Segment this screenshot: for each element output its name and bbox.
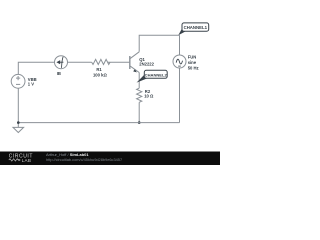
junction at R2/bottom rail	[138, 121, 141, 124]
flag CHANNEL2	[137, 70, 168, 82]
footer credit text	[46, 152, 122, 162]
wire R1 to Q1 base	[107, 61, 129, 63]
svg-text:10 Ω: 10 Ω	[144, 93, 154, 98]
wire top rail to FUN	[179, 35, 181, 55]
junction at VBB/bottom rail	[17, 121, 20, 124]
svg-text:IB: IB	[57, 71, 61, 76]
transistor Q1	[130, 52, 139, 73]
footer logo CIRCUIT LAB	[9, 154, 33, 163]
resistor R1	[92, 59, 110, 64]
svg-text:http://circuitlab.com/c/45khu9: http://circuitlab.com/c/45khu9d28b9e6c34…	[46, 157, 122, 162]
svg-text:2N2222: 2N2222	[139, 61, 154, 66]
wire FUN to bottom rail	[179, 68, 181, 123]
svg-text:FUN: FUN	[188, 55, 197, 60]
svg-text:sine: sine	[188, 60, 197, 65]
ammeter label IB	[57, 71, 61, 76]
wire bottom rail	[18, 122, 179, 124]
source FUN	[173, 55, 186, 68]
R2 value labels	[144, 89, 154, 99]
svg-text:100 kΩ: 100 kΩ	[93, 73, 107, 78]
voltage source VBB	[11, 74, 25, 88]
ammeter IB	[55, 56, 68, 69]
resistor R2	[137, 88, 142, 102]
flag CHANNEL1	[178, 23, 208, 35]
svg-text:R1: R1	[96, 67, 102, 72]
wire VBB to ground	[17, 88, 19, 127]
wire top-left rail	[18, 62, 54, 74]
wire collector to top rail	[139, 35, 179, 52]
wire probe to R1	[68, 61, 92, 63]
svg-text:CHANNEL2: CHANNEL2	[145, 72, 168, 77]
wire emitter to R2	[138, 73, 140, 89]
Q1 labels	[139, 57, 154, 66]
wire R2 to bottom rail	[138, 102, 140, 122]
R1 value labels	[93, 67, 107, 77]
VBB value labels	[28, 77, 37, 87]
svg-text:LAB: LAB	[22, 158, 32, 163]
svg-text:1 V: 1 V	[28, 82, 34, 87]
svg-text:CHANNEL1: CHANNEL1	[184, 25, 208, 30]
svg-text:50 Hz: 50 Hz	[188, 66, 199, 71]
ground	[13, 127, 24, 132]
FUN value labels	[188, 55, 199, 71]
footer bar	[0, 152, 220, 166]
